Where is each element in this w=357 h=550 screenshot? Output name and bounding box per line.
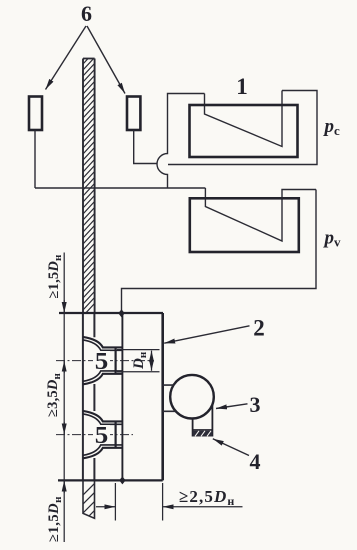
outlet duct walls	[193, 405, 213, 437]
nozzle 2 centerline	[56, 434, 133, 436]
pipe left wall lower	[82, 313, 84, 480]
duct chamber to blower	[163, 385, 176, 411]
dim arrow up at nozzle1 centerline	[63, 361, 65, 373]
bottom dim left arrow	[96, 506, 115, 508]
dim arrow up at chamber bottom	[63, 481, 65, 494]
svg-text:≥2,5Dн: ≥2,5Dн	[179, 487, 235, 508]
tap 6 right rectangle	[127, 97, 140, 131]
blower circle 3	[170, 375, 214, 419]
tap 6 left rectangle	[29, 97, 42, 131]
chamber 2 left wall	[121, 313, 123, 480]
label 5 lower	[93, 425, 110, 444]
wire: shared static line to gauge 2	[35, 187, 205, 189]
pipe right wall lower segments	[93, 313, 95, 480]
nozzle 1 centerline	[56, 360, 152, 362]
svg-text:5: 5	[95, 349, 109, 375]
chamber 2 bottom edge	[58, 479, 163, 481]
leader from 6 to right tap	[87, 26, 125, 94]
gauge U2 inner vessel rect	[190, 198, 299, 252]
gauge U1 left tube and diagonal	[205, 91, 283, 147]
leader from 4 to outlet	[213, 439, 249, 456]
svg-text:4: 4	[250, 449, 261, 474]
gauge U1 inner vessel rect	[190, 105, 298, 157]
chamber 2 right wall	[161, 313, 164, 480]
nozzle 5 lower	[83, 411, 123, 458]
gauge U2 left tube and diagonal	[205, 188, 316, 241]
leader from 3 to blower	[216, 404, 248, 409]
junction node bottom	[119, 476, 125, 484]
D_n dimension ticks	[117, 350, 160, 372]
svg-text:5: 5	[95, 423, 109, 449]
pipe outlet hatched stub	[82, 481, 96, 523]
pipe bar outline upper	[83, 58, 95, 60]
gauge U1 outer bottom and right leg with ear	[168, 91, 317, 165]
bottom dim right arrow	[163, 506, 243, 508]
chamber 2 top edge	[59, 312, 163, 314]
nozzle 5 upper	[83, 337, 123, 384]
gauge U1 outer left leg with crossover hop	[157, 94, 204, 189]
leader from 2 to chamber	[164, 326, 249, 343]
svg-text:1: 1	[236, 74, 248, 99]
junction node top	[118, 309, 124, 317]
wire: gauge U2 to chamber	[122, 190, 317, 314]
D_n dimension arrows	[151, 351, 153, 361]
svg-text:6: 6	[81, 1, 92, 26]
label 5 upper	[93, 351, 110, 370]
bottom dimension extension lines	[115, 483, 162, 521]
pipe hatched bar upper section	[83, 51, 95, 316]
svg-text:2: 2	[253, 316, 265, 341]
wire: right tap down	[134, 130, 157, 163]
dim arrow down at chamber top	[63, 300, 65, 313]
svg-text:3: 3	[250, 392, 261, 417]
wire: left tap down	[34, 130, 36, 188]
outlet grille 4	[193, 429, 213, 431]
dimension column line	[63, 253, 65, 543]
leader from 6 to left tap	[46, 26, 87, 90]
dim arrow down at nozzle2 centerline	[63, 422, 65, 435]
